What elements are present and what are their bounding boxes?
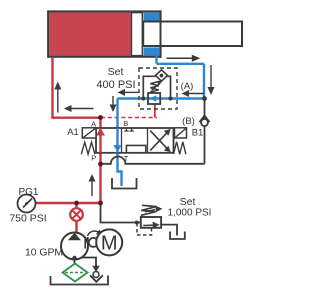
svg-text:750 PSI: 750 PSI xyxy=(9,212,46,224)
svg-text:A: A xyxy=(91,119,96,128)
svg-text:B1: B1 xyxy=(192,128,204,139)
svg-text:M: M xyxy=(101,233,118,255)
svg-text:(B): (B) xyxy=(182,116,195,127)
svg-text:T: T xyxy=(124,154,129,163)
svg-text:P: P xyxy=(91,153,96,162)
svg-text:Set: Set xyxy=(180,196,196,208)
svg-text:400 PSI: 400 PSI xyxy=(96,79,135,91)
svg-text:Set: Set xyxy=(108,66,124,78)
svg-text:(A): (A) xyxy=(181,81,194,92)
svg-text:B: B xyxy=(123,119,128,128)
svg-text:A1: A1 xyxy=(67,127,79,138)
svg-text:PG1: PG1 xyxy=(18,187,38,198)
svg-text:1,000 PSI: 1,000 PSI xyxy=(168,208,212,219)
svg-text:10 GPM: 10 GPM xyxy=(25,247,63,258)
